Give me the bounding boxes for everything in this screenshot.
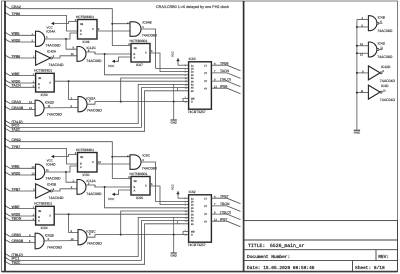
svg-text:IC43B: IC43B [47,182,57,186]
svg-text:(TALO): (TALO) [220,77,231,81]
svg-text:Document Number:: Document Number: [247,254,290,260]
svg-text:X: X [49,215,51,218]
svg-text:3B: 3B [80,23,83,26]
svg-text:IC63: IC63 [189,57,196,61]
svg-text:IC4D: IC4D [378,42,386,46]
svg-text:GND: GND [170,120,176,124]
svg-text:Date: 15.05.2020 08:58:46: Date: 15.05.2020 08:58:46 [247,265,315,271]
svg-text:CRA/LCRB0 1->0 delayed by one: CRA/LCRB0 1->0 delayed by one PH2 clock [156,5,229,9]
svg-text:12: 12 [214,85,217,88]
svg-text:10: 10 [71,238,74,241]
svg-text:74AC08D: 74AC08D [86,59,102,63]
svg-text:B: B [80,163,82,166]
svg-text:IC62D: IC62D [45,100,55,104]
svg-text:3B: 3B [134,47,137,50]
svg-text:WBE: WBE [12,72,21,76]
svg-text:TITLE:: TITLE: [248,243,265,249]
svg-text:12: 12 [29,101,32,104]
svg-text:4Y: 4Y [204,220,207,223]
svg-text:3B: 3B [38,77,41,80]
svg-text:VCC: VCC [172,51,175,57]
svg-text:74AC04D: 74AC04D [380,79,396,83]
svg-text:TPB6: TPB6 [12,54,21,58]
svg-text:WBE: WBE [12,165,21,169]
svg-text:74CBT3257: 74CBT3257 [188,110,206,114]
svg-text:IC62C: IC62C [86,230,96,234]
svg-text:2Y: 2Y [204,205,207,208]
svg-text:74AC08D: 74AC08D [46,44,62,48]
svg-text:A: A [80,33,82,36]
svg-text:74AC04D: 74AC04D [48,63,64,67]
svg-text:74AC08D: 74AC08D [47,112,63,116]
svg-text:B: B [134,186,136,189]
svg-text:HCT5B33D1: HCT5B33D1 [130,172,148,176]
svg-text:HCT5B33D1: HCT5B33D1 [76,148,94,152]
svg-text:GND: GND [354,131,360,135]
svg-text:4Y: 4Y [204,87,207,90]
svg-text:IC64A: IC64A [46,30,56,34]
svg-text:74AC04D: 74AC04D [380,98,396,102]
svg-text:13: 13 [32,173,35,176]
svg-text:1Y: 1Y [204,197,207,200]
svg-text:74AC08D: 74AC08D [86,192,102,196]
svg-text:X: X [92,161,94,164]
svg-text:IC42D: IC42D [381,65,391,69]
svg-text:HCT5B33D1: HCT5B33D1 [130,39,148,43]
svg-text:74CBT3257: 74CBT3257 [188,243,206,247]
svg-text:TPB7: TPB7 [12,187,21,191]
svg-text:74AC08D: 74AC08D [87,242,103,246]
svg-text:WBE: WBE [12,32,21,36]
svg-text:X: X [92,28,94,31]
svg-text:G: G [191,234,193,237]
svg-text:IC67: IC67 [136,63,143,67]
svg-text:B: B [134,53,136,56]
svg-text:VCC: VCC [172,184,175,190]
svg-text:Sheet: 8/10: Sheet: 8/10 [355,265,385,271]
svg-text:12: 12 [360,43,363,46]
svg-text:74AC08D: 74AC08D [377,55,393,59]
svg-text:WID0: WID0 [12,38,21,42]
svg-text:X: X [49,82,51,85]
svg-text:IC62B: IC62B [45,233,55,237]
svg-text:6526_main_sr: 6526_main_sr [270,243,305,249]
svg-text:A: A [134,190,136,193]
svg-text:B: B [38,83,40,86]
svg-text:IC49: IC49 [83,40,90,44]
svg-text:CRB3: CRB3 [12,233,21,237]
svg-text:74AC08D: 74AC08D [46,177,62,181]
svg-text:12: 12 [32,166,35,169]
svg-text:74AC08D: 74AC08D [47,245,63,249]
svg-text:IC62A: IC62A [86,97,96,101]
svg-text:13: 13 [29,107,32,110]
svg-text:CRA3: CRA3 [12,100,21,104]
svg-text:WBE: WBE [12,205,21,209]
svg-text:A: A [80,166,82,169]
svg-text:IC50: IC50 [83,173,90,177]
svg-text:A: A [38,219,40,222]
svg-text:IPB6: IPB6 [220,84,227,88]
svg-text:10: 10 [383,90,386,93]
svg-text:10: 10 [71,53,74,56]
svg-text:B: B [80,30,82,33]
svg-text:X: X [145,185,147,188]
svg-text:74AC08D: 74AC08D [87,109,103,113]
svg-text:A: A [38,86,40,89]
svg-text:TBON: TBON [12,217,22,221]
svg-text:13: 13 [360,54,363,57]
svg-text:WID0: WID0 [12,171,21,175]
svg-text:IC43A: IC43A [47,49,57,53]
svg-text:HCT5B33D1: HCT5B33D1 [34,202,52,206]
svg-text:TACN: TACN [12,84,22,88]
svg-text:3Y: 3Y [204,80,207,83]
svg-text:3B: 3B [134,180,137,183]
svg-text:B: B [38,216,40,219]
svg-text:VCC: VCC [108,197,115,201]
svg-text:X: X [145,52,147,55]
svg-text:IC64D: IC64D [46,163,56,167]
svg-text:IPB7: IPB7 [220,217,227,221]
svg-text:(TBLO): (TBLO) [220,210,231,214]
svg-text:VCC: VCC [108,64,115,68]
svg-text:IC62: IC62 [189,190,196,194]
svg-text:IC3D: IC3D [381,84,389,88]
svg-text:IC66: IC66 [136,196,143,200]
svg-text:IC6C: IC6C [143,153,151,157]
svg-text:IC64: IC64 [41,226,48,230]
svg-text:G: G [191,101,193,104]
svg-text:2Y: 2Y [204,72,207,75]
svg-text:REV:: REV: [378,255,389,260]
svg-text:74AC08D: 74AC08D [377,29,393,33]
svg-text:3B: 3B [80,156,83,159]
svg-text:74AC04D: 74AC04D [48,196,64,200]
svg-text:A: A [134,57,136,60]
svg-text:GND: GND [170,253,176,257]
svg-text:3B: 3B [38,210,41,213]
svg-text:12: 12 [214,218,217,221]
svg-text:IC64B: IC64B [143,20,153,24]
svg-text:IC4B: IC4B [378,15,386,19]
svg-text:TPB6: TPB6 [220,61,229,65]
svg-text:1Y: 1Y [204,64,207,67]
svg-text:IC59: IC59 [41,93,48,97]
svg-text:HCT5B33D1: HCT5B33D1 [34,69,52,73]
svg-text:CRB3B: CRB3B [12,239,24,243]
svg-text:11: 11 [361,90,364,93]
svg-text:TPB7: TPB7 [220,194,229,198]
svg-text:TBON: TBON [220,202,230,206]
svg-text:3Y: 3Y [204,213,207,216]
svg-text:TACN: TACN [220,69,230,73]
svg-text:CRA3B: CRA3B [12,106,24,110]
svg-text:HCT5B33D1: HCT5B33D1 [76,15,94,19]
